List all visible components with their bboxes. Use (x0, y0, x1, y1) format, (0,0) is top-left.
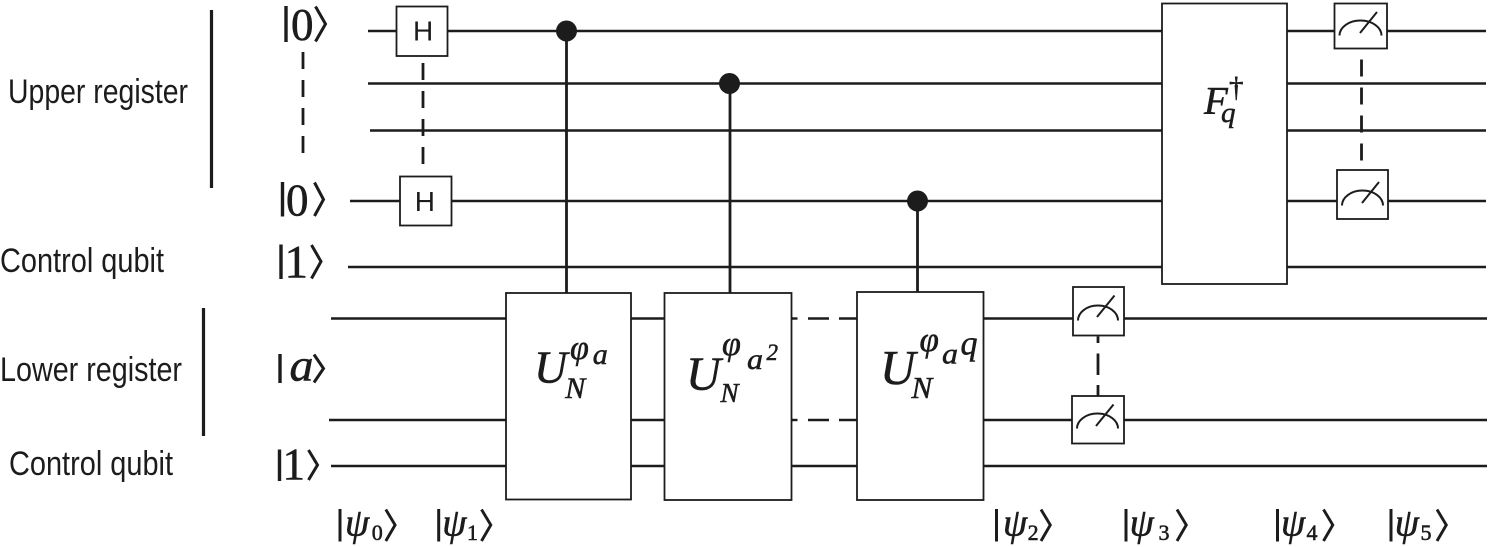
svg-text:N: N (564, 372, 587, 405)
state label |psi5> (1391, 502, 1446, 546)
dashed link between M1 and M2 (1360, 60, 1363, 163)
control dot on q3 (907, 191, 928, 212)
control vertical wire from q3 to U3 (916, 201, 919, 292)
state label |psi1> (439, 502, 491, 546)
gate U3 box (857, 292, 984, 500)
svg-text:φ: φ (570, 330, 589, 367)
svg-text:Control qubit: Control qubit (9, 445, 173, 483)
svg-text:q: q (1221, 97, 1236, 129)
svg-text:1: 1 (283, 440, 306, 490)
ket |0> on q3 (283, 176, 324, 226)
wire lower-register top (solid part) (331, 317, 793, 319)
control dot on q0 (556, 21, 577, 42)
register bracket (lower) (202, 308, 205, 436)
control vertical wire from q1 to U2 (729, 84, 732, 294)
svg-text:Control qubit: Control qubit (0, 242, 164, 280)
ket |1> control qubit (lower) (280, 440, 318, 490)
wire control qubit (lower) (331, 465, 1487, 467)
svg-text:a: a (290, 341, 314, 391)
state label |psi2> (997, 502, 1051, 546)
gate U2 label U_N^phi_a2 (686, 326, 778, 408)
svg-text:ψ: ψ (1003, 502, 1028, 545)
svg-text:0: 0 (291, 0, 314, 50)
ket |a> lower register (280, 341, 324, 391)
svg-text:1: 1 (285, 237, 309, 289)
svg-text:q: q (961, 326, 978, 363)
wire q0 (top upper-register qubit) (368, 30, 1486, 32)
svg-text:ψ: ψ (442, 502, 467, 545)
svg-text:ψ: ψ (1130, 502, 1155, 545)
control vertical wire from q0 to U1 (565, 31, 568, 293)
svg-text:ψ: ψ (345, 502, 370, 545)
wire q3 (bottom upper-register qubit) (350, 200, 1486, 202)
svg-text:φ: φ (920, 320, 939, 359)
state label |psi3> (1126, 502, 1186, 546)
svg-text:4: 4 (1307, 520, 1318, 545)
ket |1> control qubit (upper) (281, 237, 321, 289)
svg-text:Upper register: Upper register (8, 73, 188, 111)
svg-text:Lower register: Lower register (0, 351, 182, 389)
svg-text:a: a (942, 338, 958, 371)
svg-text:a: a (747, 343, 763, 376)
measurement M1 (top qubit) (1335, 4, 1388, 49)
wire lower-register top (dashed continuation segment) (792, 317, 798, 319)
dashed link between M3 and M4 (1097, 337, 1100, 344)
ket |0> on q0 (286, 0, 326, 50)
measurement M3 (lower register top) (1073, 287, 1124, 336)
gate H2 box (400, 177, 452, 226)
svg-text:ψ: ψ (1395, 502, 1420, 545)
gate U1 box (506, 293, 631, 500)
wire control qubit (upper) (348, 266, 1486, 268)
gate U2 box (665, 293, 792, 500)
gate U1 label U_N^phi_a (534, 330, 608, 405)
gate H1 box (397, 7, 448, 57)
svg-text:H: H (415, 186, 435, 217)
state label |psi4> (1278, 502, 1333, 546)
wire q2 (upper register) (370, 129, 1486, 131)
wire lower-register top (right part) (857, 317, 1487, 319)
gate Fq-dagger box (inverse QFT) (1162, 4, 1287, 285)
wire lower-register bottom (solid part) (329, 419, 793, 421)
control dot on q1 (719, 73, 740, 94)
svg-text:N: N (720, 378, 741, 408)
dashed link between H gates (422, 63, 425, 165)
wire lower-register bottom (dashed continuation segment) (792, 419, 798, 421)
svg-text:5: 5 (1421, 520, 1432, 545)
svg-text:0: 0 (372, 520, 383, 545)
svg-text:0: 0 (286, 176, 309, 226)
dashed ellipsis between |0> kets (302, 52, 305, 159)
svg-text:φ: φ (722, 326, 741, 363)
svg-text:2: 2 (1028, 520, 1039, 545)
measurement M4 (lower register bottom) (1072, 396, 1124, 444)
wire lower-register bottom (right part) (857, 419, 1487, 421)
wire q1 (upper register) (368, 82, 1486, 84)
svg-text:1: 1 (467, 520, 478, 545)
svg-text:U: U (686, 348, 724, 401)
gate Fq-dagger label (1203, 72, 1244, 130)
svg-text:2: 2 (767, 340, 779, 365)
measurement M2 (q3) (1337, 170, 1388, 219)
register bracket (upper) (210, 10, 213, 188)
svg-text:a: a (593, 338, 608, 371)
svg-text:H: H (413, 16, 433, 47)
svg-text:ψ: ψ (1281, 502, 1306, 545)
gate U3 label U_N^phi_aq (880, 320, 978, 405)
svg-text:N: N (911, 370, 935, 405)
state label |psi0> (340, 502, 395, 546)
svg-text:3: 3 (1159, 520, 1170, 545)
